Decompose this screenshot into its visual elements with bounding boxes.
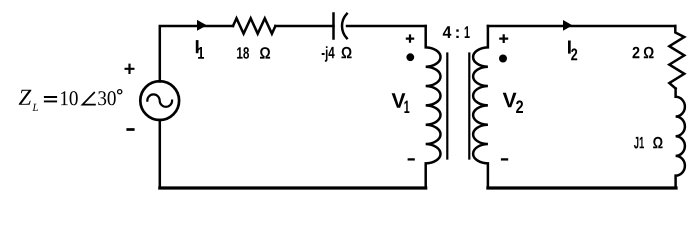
number 30: [98, 91, 115, 105]
wire left rail bottom (source to bottom wire): [159, 120, 162, 187]
angle symbol: [83, 92, 96, 105]
degree symbol: [118, 90, 122, 94]
number 10: [61, 91, 78, 105]
label V2: [503, 93, 517, 107]
inductor L1 J1ohm: [676, 89, 685, 189]
wire top right loop: [488, 25, 675, 28]
resistor R2 2ohm vertical zigzag: [669, 26, 684, 89]
label 4:1 ratio: [443, 26, 452, 38]
label I1: [196, 40, 199, 53]
polarity dot primary: [406, 53, 414, 61]
minus sign primary: [408, 158, 415, 160]
source sine wave: [147, 94, 172, 106]
current arrow I1: [197, 20, 207, 31]
plus sign primary: [406, 34, 414, 42]
transformer primary winding V1: [426, 26, 441, 188]
source Vs circle: [140, 81, 179, 120]
label I2: [568, 41, 571, 54]
wire resistor to capacitor: [275, 25, 333, 28]
transformer secondary winding V2: [473, 26, 488, 188]
minus sign secondary: [501, 158, 508, 160]
wire bottom left loop: [160, 186, 426, 189]
capacitor C1 -j4ohm left plate: [332, 14, 335, 39]
plus sign source: [125, 64, 135, 74]
wire left rail top (source to top-left corner to resistor): [160, 26, 233, 82]
label -j4 ohm: [322, 46, 335, 61]
capacitor C1 -j4ohm curved plate: [342, 14, 347, 38]
minus sign source: [126, 128, 134, 131]
current arrow I2: [563, 20, 573, 31]
plus sign secondary: [499, 34, 508, 43]
label J1 ohm: [634, 137, 644, 149]
transformer core bar left: [446, 54, 448, 159]
label 2 ohm: [633, 47, 640, 59]
wire capacitor to transformer primary corner: [347, 25, 426, 28]
source label ZL equation: [19, 90, 32, 105]
resistor R1 18ohm zigzag: [233, 18, 275, 33]
label 18 ohm: [237, 47, 249, 59]
label V1: [392, 93, 406, 107]
transformer core bar right: [468, 54, 470, 159]
equals sign: [44, 97, 57, 101]
polarity dot secondary: [499, 55, 507, 63]
wire bottom right loop: [488, 186, 676, 189]
